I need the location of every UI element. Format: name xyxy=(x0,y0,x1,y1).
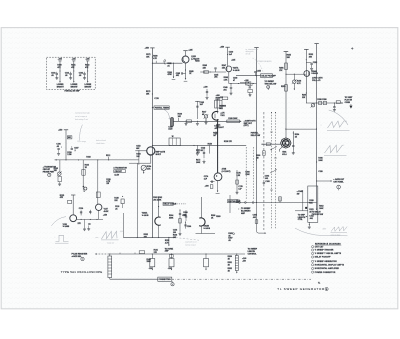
arrow bus bottom to delay sw xyxy=(312,209,324,216)
wire cable row xyxy=(110,278,158,280)
wire left row xyxy=(55,159,139,160)
capacitor C136 xyxy=(79,208,83,216)
resistor divider R153 xyxy=(136,151,140,165)
wire V174 plate line xyxy=(217,119,219,173)
wire V161 plate xyxy=(215,97,222,114)
svg-text:330K: 330K xyxy=(169,217,174,219)
extra labels V262 coupling xyxy=(183,212,191,228)
tube V135 sweep gate xyxy=(70,215,77,222)
switch contact ticks xyxy=(270,112,277,190)
ghost note 7 times xyxy=(257,60,273,63)
curve to electrolytic xyxy=(164,109,170,119)
svg-text:sweep output: sweep output xyxy=(185,244,196,247)
wire V262B cathode xyxy=(196,226,216,234)
delay pickoff box xyxy=(261,74,277,78)
label V291 6CL6 xyxy=(282,152,286,156)
resistor R232 labels xyxy=(144,234,148,238)
svg-text:POWER CONNECTOR: POWER CONNECTOR xyxy=(315,272,336,274)
svg-text:+350: +350 xyxy=(220,47,224,49)
capacitor C299 xyxy=(333,102,336,111)
svg-text:BRIGHT: BRIGHT xyxy=(57,86,65,88)
label R138 27K xyxy=(78,223,82,225)
label probe power block xyxy=(43,165,57,173)
tube V174 xyxy=(214,173,222,181)
svg-text:82: 82 xyxy=(201,150,203,152)
wire grid V291 xyxy=(261,143,281,146)
svg-text:.001: .001 xyxy=(196,152,200,154)
resistor R171 labels on bus xyxy=(146,54,153,58)
capacitor C292 xyxy=(306,62,317,70)
label V137 xyxy=(103,209,109,217)
svg-text:a: a xyxy=(321,124,322,126)
capacitor C303 on x264 xyxy=(263,181,270,183)
capacitor C185 xyxy=(176,72,186,77)
wire to horiz amp xyxy=(165,237,174,252)
resistor R165 xyxy=(96,160,100,204)
title sweep generator xyxy=(277,282,328,291)
svg-text:C136: C136 xyxy=(79,208,83,210)
ground below Q183 xyxy=(184,78,188,81)
svg-text:-150: -150 xyxy=(149,268,153,270)
label R247 pair xyxy=(222,64,226,69)
boxed label partial sweep switch xyxy=(228,200,242,203)
svg-text:.01: .01 xyxy=(115,208,118,210)
resistor R294 stack xyxy=(292,131,299,154)
svg-text:+225: +225 xyxy=(58,59,62,61)
svg-text:CONNECTING: CONNECTING xyxy=(159,279,172,281)
resistor R303 on x264 xyxy=(263,151,266,156)
ghost waveform sweep A xyxy=(321,121,350,131)
label R140 xyxy=(147,258,152,263)
svg-text:fast sweep 2 ms: fast sweep 2 ms xyxy=(75,118,88,121)
wire to sweep selector arrow xyxy=(240,82,250,83)
label C174 1uF xyxy=(204,175,208,180)
label box partial timing switch xyxy=(152,106,170,109)
svg-text:120 v range: 120 v range xyxy=(77,140,86,143)
svg-text:V SWEEP T GEN BL AMPTS: V SWEEP T GEN BL AMPTS xyxy=(315,252,342,255)
ghost note lower xyxy=(95,237,99,239)
resistor R184 drop xyxy=(168,63,176,80)
svg-text:V161: V161 xyxy=(220,115,224,117)
arrow sawtooth out xyxy=(240,121,242,122)
wire into Q151 xyxy=(135,150,146,151)
svg-text:100K: 100K xyxy=(319,208,324,210)
wire timing output row xyxy=(152,145,246,146)
wire bottom row xyxy=(96,253,246,255)
resistor R292 xyxy=(306,54,313,60)
svg-text:set w/ scope at: set w/ scope at xyxy=(75,115,87,118)
svg-text:+2: +2 xyxy=(343,145,345,147)
extra cluster left column mid xyxy=(196,159,201,163)
gate box on row xyxy=(169,255,173,258)
resistor R306 hook branch xyxy=(253,203,267,234)
label between switch lines xyxy=(245,172,250,176)
svg-text:+225: +225 xyxy=(231,60,235,62)
resistor R256 xyxy=(279,63,287,72)
pot R167 xyxy=(202,112,208,122)
boxed label transistor circuit block xyxy=(113,167,127,177)
ground C165 xyxy=(196,121,199,125)
svg-text:lockout level: lockout level xyxy=(96,139,106,142)
svg-text:+225: +225 xyxy=(72,59,76,61)
tube V262B xyxy=(199,218,205,226)
resistor ladder R330 xyxy=(228,254,247,274)
dashed enclosure (partial delay line) xyxy=(47,57,96,89)
resistor R245 xyxy=(203,64,211,73)
labels right of V262B xyxy=(211,215,220,219)
svg-text:DELAY SW: DELAY SW xyxy=(251,134,261,137)
ghost pencil annotations mid xyxy=(96,139,106,145)
wire left of switch box xyxy=(295,190,308,211)
svg-text:check bias: check bias xyxy=(96,143,105,145)
wire left branch xyxy=(65,130,67,160)
label C345 xyxy=(297,190,303,195)
node +350 terminal 3 xyxy=(304,48,309,50)
node terminal above V135 xyxy=(60,195,76,199)
svg-text:+150: +150 xyxy=(103,215,107,217)
wire sweep output row xyxy=(123,237,175,238)
ghost pencil annotations upper xyxy=(75,112,90,143)
connector J101 xyxy=(48,173,51,176)
label V247A half 6AU8 xyxy=(233,67,240,72)
relay box K160 xyxy=(169,136,180,145)
label ext horiz xyxy=(333,178,345,183)
connector J313 xyxy=(337,185,341,190)
wire anode bus V247A xyxy=(227,47,229,66)
ghost arc top right xyxy=(329,110,348,125)
neon lamp B167 column xyxy=(57,59,65,89)
junction tick R112 xyxy=(106,155,110,160)
svg-text:.05: .05 xyxy=(56,146,59,148)
label cluster R141 top xyxy=(154,249,158,254)
ground R169 xyxy=(185,120,188,125)
resistor R180 xyxy=(153,56,157,64)
connector flag J297 xyxy=(349,104,352,109)
dash-dot cable run xyxy=(172,278,311,280)
label +100 node 2 xyxy=(244,80,248,82)
capacitor C182 on wire xyxy=(164,60,172,68)
label R158 27K xyxy=(224,141,233,143)
svg-text:V SWEEP GENERATOR: V SWEEP GENERATOR xyxy=(315,260,338,263)
transistor Q151 swp gate xyxy=(137,147,155,163)
svg-text:1W: 1W xyxy=(297,194,300,196)
svg-text:C266: C266 xyxy=(187,226,191,228)
stub at x230 xyxy=(229,195,230,213)
svg-text:.001: .001 xyxy=(176,75,180,77)
wire grid input V247A xyxy=(200,71,226,72)
svg-text:CRT PANEL: CRT PANEL xyxy=(333,181,344,184)
svg-text:R112: R112 xyxy=(106,155,110,157)
svg-text:0.1: 0.1 xyxy=(220,108,223,110)
svg-text:47: 47 xyxy=(233,79,235,82)
ground below switch box xyxy=(308,222,311,229)
tube V291 power envelope xyxy=(281,138,291,148)
ghost dashes after row xyxy=(176,238,199,241)
svg-text:C316: C316 xyxy=(318,171,322,173)
label +100 R250 xyxy=(216,95,220,99)
svg-text:CONN: CONN xyxy=(345,102,351,104)
label R312 right xyxy=(319,206,324,210)
svg-text:DELAY PICKOFF: DELAY PICKOFF xyxy=(315,256,332,259)
svg-text:PARTIAL BV SWP: PARTIAL BV SWP xyxy=(65,89,81,92)
wire to front panel arrow xyxy=(316,180,332,181)
resistor R299 on output row xyxy=(336,101,340,104)
label switch section lower xyxy=(265,175,269,179)
svg-text:6CL6: 6CL6 xyxy=(282,154,286,156)
wire V135 plate xyxy=(72,195,74,215)
dashed switch line 2 xyxy=(275,112,277,230)
resistor R259 xyxy=(281,85,287,92)
wire horizontal pickoff run xyxy=(229,83,257,84)
wire V294A branch xyxy=(305,49,307,103)
resistor R298 pair xyxy=(317,99,326,104)
label box T250 xyxy=(222,97,228,100)
label V174 xyxy=(222,167,231,172)
node +350 terminal 2 xyxy=(220,47,230,49)
extra cluster above relay xyxy=(203,86,208,99)
svg-text:HORIZONTAL DISPLAY AMPTS: HORIZONTAL DISPLAY AMPTS xyxy=(315,264,345,267)
svg-text:.05: .05 xyxy=(65,75,68,77)
svg-text:R169 100K: R169 100K xyxy=(228,118,238,120)
node +350 terminal xyxy=(145,48,155,50)
label R108 left block xyxy=(86,157,90,159)
resistor R311 in box xyxy=(309,209,313,213)
svg-text:+225: +225 xyxy=(219,97,223,99)
svg-text:.001: .001 xyxy=(309,218,313,220)
svg-text:R244: R244 xyxy=(195,60,199,63)
svg-text:12.5V: 12.5V xyxy=(114,174,119,176)
resistor R310 in box xyxy=(309,200,313,204)
title type 541 oscilloscope xyxy=(61,270,103,274)
label to sweep length xyxy=(248,249,258,256)
svg-text:5: 5 xyxy=(326,289,327,291)
svg-text:BRIGHT: BRIGHT xyxy=(85,86,93,88)
tube V294A xyxy=(304,71,310,77)
svg-text:.05: .05 xyxy=(228,240,231,242)
svg-text:150K: 150K xyxy=(245,174,250,176)
svg-text:1W: 1W xyxy=(106,183,109,185)
tube V247A xyxy=(226,66,232,72)
labels above V262 xyxy=(153,197,162,201)
svg-text:-150: -150 xyxy=(242,260,246,262)
svg-text:.001: .001 xyxy=(214,77,218,79)
svg-text:TL SWEEP GENERATOR: TL SWEEP GENERATOR xyxy=(277,287,325,291)
capacitor C167 xyxy=(51,72,58,80)
svg-text:+: + xyxy=(55,236,56,238)
label to sweep amp xyxy=(265,81,277,85)
boxed label R101 xyxy=(67,136,72,139)
transistor Q183 xyxy=(182,56,189,63)
small box on sweep row xyxy=(236,200,239,202)
junction dot left of box xyxy=(305,207,307,209)
wire into delay pickoff xyxy=(236,75,261,76)
svg-text:-150: -150 xyxy=(168,268,172,270)
right stack R176 xyxy=(236,170,243,194)
dashed switch line 1 xyxy=(271,112,273,230)
svg-text:.001: .001 xyxy=(253,217,257,219)
label R166 1M xyxy=(213,133,217,137)
label +225 node xyxy=(231,60,235,62)
capacitor C165 vertical xyxy=(195,101,204,119)
svg-text:49.5K: 49.5K xyxy=(104,210,109,213)
resistor R143 xyxy=(204,254,209,270)
label switch section upper xyxy=(256,155,260,160)
svg-text:C303: C303 xyxy=(265,181,269,183)
wire V262B plate xyxy=(200,197,202,218)
tube V262A xyxy=(155,217,161,225)
svg-text:+100: +100 xyxy=(120,231,124,233)
node +225 above Q183 xyxy=(183,50,192,56)
coupling network V262 xyxy=(169,209,186,235)
svg-text:2.2M: 2.2M xyxy=(67,154,71,156)
switch wafer box xyxy=(308,186,318,222)
emitter cluster Q164 xyxy=(83,186,87,192)
pot R258 xyxy=(292,74,302,90)
capacitor C107 xyxy=(71,146,79,152)
svg-text:BRIGHT: BRIGHT xyxy=(71,86,79,88)
wire main bus V1 xyxy=(151,48,153,238)
capacitor C166 cluster xyxy=(214,126,218,136)
boxed label C135 xyxy=(68,200,72,203)
label V294A xyxy=(311,70,318,75)
svg-text:+100: +100 xyxy=(205,186,209,188)
ghost waveform mid right xyxy=(323,226,348,232)
registration cross xyxy=(351,47,353,49)
tube V161 upper half xyxy=(212,111,218,120)
wire V291 cathode bend xyxy=(279,147,282,152)
svg-text:+225: +225 xyxy=(86,59,90,61)
ghost sawtooth note xyxy=(185,240,197,246)
label +100 left xyxy=(195,58,199,62)
resistor R252 on pickoff run xyxy=(246,82,255,85)
ghost note rows top xyxy=(246,48,259,56)
wire left stub of output row xyxy=(122,213,124,237)
svg-text:PARTIAL TIMING: PARTIAL TIMING xyxy=(155,106,170,109)
neon lamp B169 column xyxy=(85,59,93,89)
label to vert amp xyxy=(345,97,354,104)
svg-text:TYPE 5A1 OSCILLOSCOPE: TYPE 5A1 OSCILLOSCOPE xyxy=(61,270,103,274)
label C248 xyxy=(233,76,237,81)
connector J150 xyxy=(171,281,174,286)
neon lamp B168 column xyxy=(71,59,79,89)
svg-text:.05: .05 xyxy=(51,75,54,77)
svg-text:.001 220K: .001 220K xyxy=(153,200,162,202)
label V262A xyxy=(142,211,149,216)
resistor R167B long box xyxy=(227,118,240,123)
svg-text:C174: C174 xyxy=(154,97,158,100)
label V135 xyxy=(63,224,70,228)
dashed switch line 3 xyxy=(245,147,247,200)
svg-text:off ckt: off ckt xyxy=(246,53,251,56)
svg-text:+350: +350 xyxy=(145,48,149,50)
wire sawtooth out row xyxy=(216,121,217,122)
pot R163 xyxy=(54,160,62,186)
reference diagrams list xyxy=(312,242,345,273)
boxed label delay cable xyxy=(163,202,186,205)
resistor ladder R145 xyxy=(108,253,112,277)
svg-text:DELAY PICKOFF: DELAY PICKOFF xyxy=(261,74,276,77)
svg-text:100K: 100K xyxy=(318,160,323,162)
capacitor C249 xyxy=(223,83,232,95)
label C152 68K xyxy=(136,145,140,149)
svg-text:MULTI: MULTI xyxy=(156,154,162,156)
wire switch bus x264 xyxy=(263,112,264,230)
resistor R169 xyxy=(186,120,198,123)
svg-text:sweep lockout adj: sweep lockout adj xyxy=(75,112,90,115)
wire V262A plate xyxy=(158,197,159,217)
label right column mid xyxy=(316,158,323,163)
svg-text:CONTROL: CONTROL xyxy=(248,253,258,255)
capacitor C250 loop xyxy=(246,84,252,96)
capacitor C255 xyxy=(254,70,261,75)
wire output row xyxy=(306,102,342,103)
label R160 xyxy=(219,106,223,110)
svg-text:R162: R162 xyxy=(86,157,90,159)
svg-text:HORIZONTAL AMPLIFIER: HORIZONTAL AMPLIFIER xyxy=(315,267,340,270)
wire plate supply branch xyxy=(285,52,287,139)
connector J140 xyxy=(81,257,84,260)
svg-text:R259: R259 xyxy=(281,86,285,88)
label Q151 xyxy=(156,150,166,155)
capacitor C169 xyxy=(79,72,86,80)
svg-text:V SWEEP TRIGGER: V SWEEP TRIGGER xyxy=(315,250,334,252)
labels below transistor block xyxy=(106,179,110,185)
svg-text:+350: +350 xyxy=(58,129,62,131)
svg-text:R298 C298: R298 C298 xyxy=(317,99,326,101)
svg-text:150K: 150K xyxy=(147,261,152,263)
svg-text:.01: .01 xyxy=(167,65,170,67)
caption partial delay line xyxy=(65,89,81,92)
pot R297 xyxy=(311,103,316,108)
capacitor C240 labels xyxy=(227,51,233,56)
label R110 left block xyxy=(67,152,71,156)
wire V262A cathode xyxy=(158,225,159,238)
cluster below transistor block xyxy=(114,196,124,211)
label right column low xyxy=(318,171,322,173)
label Q183 emitter follower xyxy=(191,56,196,60)
relay K250 outline xyxy=(215,100,222,108)
label C160B xyxy=(220,105,226,109)
arrow to vert amp xyxy=(342,102,344,103)
grid network V174 xyxy=(205,181,215,189)
svg-text:R159: R159 xyxy=(208,143,212,145)
svg-text:.001: .001 xyxy=(265,178,269,180)
svg-text:CIRCUIT: CIRCUIT xyxy=(115,171,123,173)
capacitor C168 xyxy=(65,72,72,80)
svg-text:7 TIMES DELAYED: 7 TIMES DELAYED xyxy=(257,60,273,63)
pot R154 swp cal xyxy=(141,165,151,174)
tube V137 xyxy=(96,204,102,210)
svg-text:CRT CKT: CRT CKT xyxy=(315,246,325,248)
svg-text:W: W xyxy=(172,136,174,138)
ground below pot R167 xyxy=(205,119,208,124)
resistor R159 stub xyxy=(208,143,212,153)
resistor R168 xyxy=(178,113,182,121)
label sawtooth swp out xyxy=(244,119,257,127)
ghost cable arc right xyxy=(295,228,348,236)
ghost waveform sweep B xyxy=(324,145,347,156)
svg-text:TRIG SEL SW: TRIG SEL SW xyxy=(265,83,277,85)
svg-text:.05: .05 xyxy=(79,75,82,77)
wire pot tee xyxy=(285,74,305,75)
ghost curve into V135 xyxy=(51,217,66,226)
capacitor C163 below row xyxy=(196,145,205,155)
ghost waveform gate xyxy=(55,235,69,243)
label +175 xyxy=(220,112,224,116)
capacitor C245 xyxy=(214,68,218,79)
ghost sawtooth waveform xyxy=(101,231,123,244)
svg-text:R158 27K: R158 27K xyxy=(224,141,233,143)
